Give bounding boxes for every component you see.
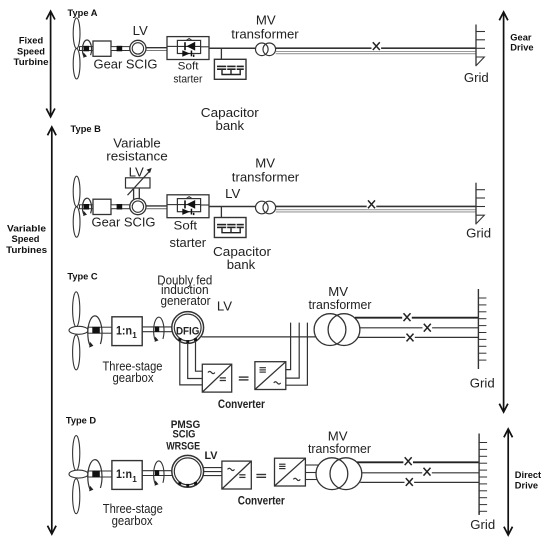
svg-text:LV: LV: [205, 450, 219, 462]
svg-text:Gear SCIG: Gear SCIG: [92, 215, 156, 230]
svg-text:Grid: Grid: [470, 376, 495, 391]
svg-text:Soft: Soft: [174, 219, 198, 233]
svg-text:Speed: Speed: [17, 46, 45, 56]
svg-text:Grid: Grid: [464, 70, 489, 85]
svg-text:starter: starter: [173, 73, 202, 85]
svg-text:transformer: transformer: [232, 170, 300, 185]
svg-text:Gear SCIG: Gear SCIG: [94, 56, 158, 71]
svg-text:WRSGE: WRSGE: [166, 441, 200, 453]
svg-text:Type C: Type C: [67, 271, 98, 281]
svg-text:Grid: Grid: [466, 225, 491, 240]
svg-text:LV: LV: [225, 186, 240, 201]
svg-text:SCIG: SCIG: [173, 429, 196, 441]
svg-text:MV: MV: [256, 12, 276, 27]
svg-text:transformer: transformer: [231, 26, 299, 41]
svg-text:gearbox: gearbox: [112, 513, 153, 528]
svg-text:Grid: Grid: [470, 517, 495, 532]
svg-text:Converter: Converter: [238, 493, 285, 507]
svg-text:transformer: transformer: [308, 441, 372, 456]
svg-text:resistance: resistance: [106, 149, 168, 164]
svg-text:Type D: Type D: [66, 416, 97, 426]
svg-text:bank: bank: [216, 118, 245, 133]
svg-text:Turbines: Turbines: [6, 245, 47, 255]
svg-text:bank: bank: [227, 257, 256, 272]
svg-text:MV: MV: [255, 155, 275, 170]
svg-text:LV: LV: [217, 299, 232, 314]
svg-text:Turbine: Turbine: [14, 57, 49, 67]
svg-text:Converter: Converter: [218, 397, 265, 411]
svg-text:Gear: Gear: [510, 33, 532, 43]
svg-text:Fixed: Fixed: [19, 36, 44, 46]
svg-text:generator: generator: [161, 293, 212, 308]
svg-text:Type A: Type A: [68, 8, 98, 18]
svg-text:Soft: Soft: [178, 61, 200, 73]
svg-text:Direct: Direct: [515, 470, 541, 480]
svg-text:Variable: Variable: [7, 224, 46, 234]
svg-text:Drive: Drive: [515, 480, 538, 490]
svg-text:Speed: Speed: [12, 234, 40, 244]
svg-text:gearbox: gearbox: [113, 370, 154, 385]
svg-text:LV: LV: [133, 23, 148, 38]
svg-text:transformer: transformer: [309, 297, 373, 312]
svg-text:Type B: Type B: [71, 124, 102, 134]
svg-text:DFIG: DFIG: [176, 325, 200, 337]
svg-text:starter: starter: [170, 236, 207, 250]
svg-text:Drive: Drive: [510, 43, 533, 53]
